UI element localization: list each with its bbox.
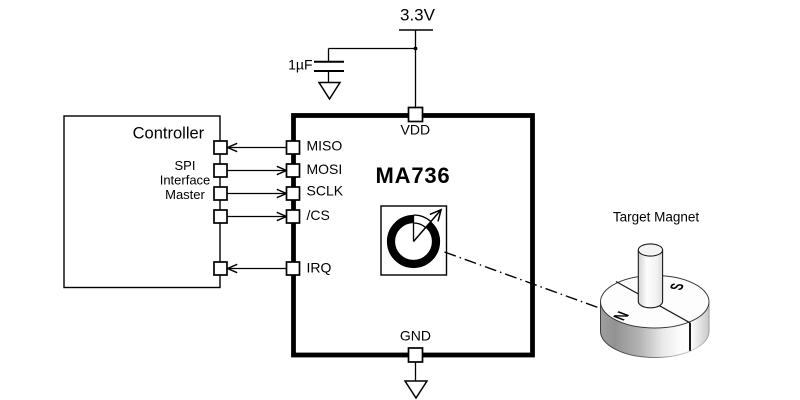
svg-text:GND: GND [400,328,431,344]
svg-text:VDD: VDD [401,122,431,138]
svg-text:3.3V: 3.3V [400,5,436,24]
svg-text:Controller: Controller [133,125,205,143]
svg-text:1µF: 1µF [288,57,312,73]
svg-text:Target Magnet: Target Magnet [613,210,700,225]
svg-text:SCLK: SCLK [307,183,344,199]
svg-text:IRQ: IRQ [307,260,332,276]
svg-text:/CS: /CS [307,207,330,223]
svg-text:MOSI: MOSI [307,161,343,177]
svg-text:SPI: SPI [175,158,196,173]
svg-text:MISO: MISO [307,138,343,154]
svg-text:Master: Master [165,187,205,202]
svg-text:MA736: MA736 [376,163,451,188]
svg-text:Interface: Interface [160,172,211,187]
